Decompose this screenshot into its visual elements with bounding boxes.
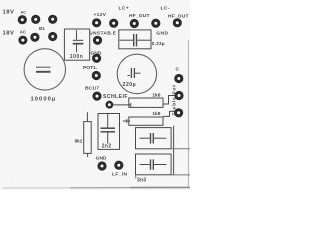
pad AC input 2 — [31, 15, 40, 24]
pad AC input 4 — [18, 36, 27, 45]
wire R1 left lead — [113, 104, 131, 106]
svg-text:18V: 18V — [3, 10, 15, 16]
C5 symbol — [107, 114, 109, 128]
svg-text:POT1.: POT1. — [83, 65, 98, 71]
svg-text:3n3: 3n3 — [137, 177, 146, 183]
capacitor C3 outline (top right) — [119, 30, 151, 49]
resistor R1 outline — [129, 98, 163, 107]
C7 symbol — [140, 164, 150, 166]
board bottom edge — [2, 187, 70, 189]
junction tick R1 — [130, 103, 132, 107]
svg-text:AC: AC — [21, 11, 27, 15]
pad AC input 3 — [48, 15, 57, 24]
wire R2 left lead — [123, 120, 130, 122]
wire R3 top lead — [86, 112, 88, 121]
svg-text:UNSTAB.E: UNSTAB.E — [89, 30, 116, 36]
pad treble 2 — [174, 91, 183, 100]
pad +12V — [92, 18, 101, 27]
capacitor C6 outline — [136, 128, 172, 149]
svg-text:B1: B1 — [39, 26, 45, 31]
svg-text:LF_IN: LF_IN — [112, 172, 127, 178]
pad LC- — [151, 19, 160, 28]
resistor R2 outline — [129, 117, 163, 125]
pad AC input 6 — [48, 32, 57, 41]
pad treble 1 — [174, 74, 183, 83]
C2 symbol — [76, 30, 78, 40]
pad HF_OUT right — [173, 18, 182, 27]
pad GND — [92, 54, 101, 63]
pad POT1 — [92, 71, 101, 80]
paper noise — [0, 0, 190, 190]
pad SCHLEIF — [92, 92, 101, 101]
C1 polarity bars — [36, 66, 51, 68]
wire R3 bottom lead — [87, 153, 89, 157]
svg-text:GND: GND — [96, 156, 107, 161]
svg-text:C: C — [176, 67, 180, 73]
wire C7 left stub — [135, 175, 137, 179]
wire C6 bottom extension — [171, 148, 190, 150]
svg-text:BC1!7: BC1!7 — [85, 85, 99, 91]
pad HF_OUT left — [130, 19, 139, 28]
svg-text:0,33µ: 0,33µ — [152, 41, 165, 46]
svg-text:10000µ: 10000µ — [31, 96, 57, 102]
capacitor C2 100n outline — [64, 29, 89, 60]
C4 symbol — [130, 68, 132, 78]
svg-text:GND: GND — [156, 31, 168, 37]
pad AC input 5 — [30, 33, 39, 42]
svg-text:2n2: 2n2 — [102, 143, 112, 149]
C6 symbol — [140, 137, 150, 139]
resistor R3 8k2 outline (vertical) — [84, 122, 92, 154]
svg-text:100n: 100n — [70, 54, 84, 60]
pad R1 left — [106, 101, 114, 109]
wire C6/C7 right bus — [173, 126, 175, 176]
pad AC input 1 — [18, 15, 27, 24]
svg-text:HF_OUT: HF_OUT — [129, 13, 150, 19]
capacitor C7 outline — [136, 154, 172, 175]
pad GND bottom 1 — [97, 161, 106, 170]
capacitor C5 2n2 outline — [98, 114, 120, 150]
svg-text:AC: AC — [20, 29, 26, 34]
C3 symbol — [120, 39, 134, 41]
wire C7 bottom extension — [171, 174, 190, 176]
capacitor C1 10000u outline — [24, 49, 65, 90]
pad LC+ — [109, 19, 118, 28]
svg-text:SCHLEIF: SCHLEIF — [103, 94, 128, 100]
svg-text:+12V: +12V — [94, 12, 107, 18]
wire R1 right lead — [163, 96, 175, 105]
svg-text:18V: 18V — [3, 30, 15, 36]
svg-text:8k2: 8k2 — [75, 139, 83, 144]
pad LF_IN — [114, 161, 123, 170]
capacitor C4 220u outline — [117, 54, 156, 93]
junction tick R2 — [126, 119, 128, 123]
pad UNSTAB — [93, 36, 102, 45]
svg-text:LC-: LC- — [161, 6, 170, 12]
svg-text:220µ: 220µ — [123, 82, 137, 88]
board right edge — [187, 40, 189, 187]
svg-text:LC+: LC+ — [119, 6, 130, 12]
svg-text:1k8: 1k8 — [152, 111, 160, 117]
wire R2 right lead — [163, 111, 174, 116]
pad treble 3 — [174, 108, 183, 117]
